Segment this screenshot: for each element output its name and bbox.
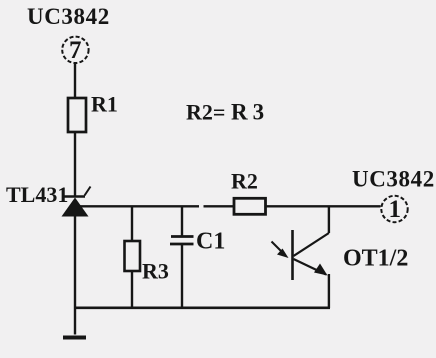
- node rail segment gap to R2: [204, 205, 235, 207]
- phototransistor OT1/2 collector diagonal: [294, 233, 329, 256]
- svg-text:R2: R2: [231, 169, 258, 194]
- regulator TL431 reference tick: [85, 187, 91, 196]
- capacitor C1 bottom plate: [170, 243, 194, 246]
- capacitor C1 top plate: [171, 235, 194, 238]
- wire rail to C1: [181, 206, 183, 236]
- svg-text:R1: R1: [91, 92, 118, 117]
- phototransistor OT1/2 base bar: [291, 230, 294, 280]
- regulator TL431 cathode bar: [64, 195, 85, 198]
- light arrow into OT1: [272, 242, 289, 259]
- resistor R2: [234, 198, 266, 214]
- wire C1 to ground rail: [181, 244, 183, 308]
- svg-text:7: 7: [69, 37, 82, 64]
- wire pin7 to R1: [74, 64, 76, 99]
- wire rail to R3: [131, 206, 133, 241]
- svg-text:R3: R3: [142, 259, 169, 284]
- svg-text:UC3842: UC3842: [352, 166, 435, 191]
- wire TL431 to ground rail: [74, 216, 76, 335]
- svg-text:R3: R3: [231, 100, 269, 125]
- pin 7 terminal circle: [62, 37, 88, 64]
- wire R2 to pin1: [266, 205, 381, 207]
- svg-text:1: 1: [389, 196, 402, 223]
- svg-text:C1: C1: [196, 229, 225, 255]
- wire OT1 emitter to ground rail: [328, 274, 330, 308]
- node rail segment TL431 to gap: [78, 205, 199, 207]
- svg-text:OT1/2: OT1/2: [343, 246, 408, 272]
- svg-text:TL431: TL431: [6, 182, 68, 207]
- svg-text:R2=: R2=: [186, 100, 225, 125]
- wire R3 to ground rail: [131, 271, 133, 308]
- phototransistor OT1/2 emitter with arrow: [294, 259, 328, 276]
- ground rail: [75, 306, 330, 309]
- pin 1 terminal circle: [381, 196, 407, 223]
- resistor R3: [125, 241, 141, 271]
- wire R1 to TL431: [74, 132, 76, 196]
- ground symbol: [63, 336, 86, 340]
- svg-text:UC3842: UC3842: [27, 4, 110, 29]
- wire rail to OT1 collector: [328, 206, 330, 233]
- regulator TL431 triangle: [62, 198, 89, 217]
- resistor R1: [68, 98, 86, 132]
